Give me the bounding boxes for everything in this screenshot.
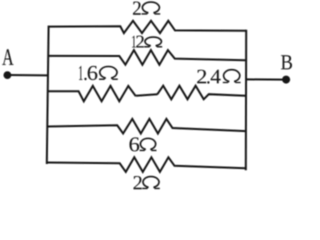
- wire: middle branch gap between R3 and R4: [136, 94, 158, 96]
- wire: terminal A lead: [7, 74, 48, 76]
- label R5 value 6ohm: [130, 137, 157, 151]
- node B terminal dot: [282, 76, 290, 84]
- label R1 value 2ohm: [133, 2, 160, 15]
- node B label: [281, 55, 292, 69]
- resistor R3 1.6ohm middle branch left: [48, 86, 136, 101]
- resistor R2 12ohm branch: [48, 50, 245, 65]
- label R4 value 2.4ohm: [197, 70, 240, 84]
- resistor R6 2ohm bottom branch: [47, 157, 246, 172]
- label R2 value 12ohm: [132, 36, 162, 48]
- wire: right vertical rail: [245, 30, 247, 171]
- resistor R4 2.4ohm middle branch right (up-first zigzag): [157, 86, 245, 100]
- wire: left vertical rail: [47, 26, 49, 164]
- resistor R5 6ohm branch: [48, 119, 246, 134]
- node A label: [2, 49, 13, 65]
- label R3 value 1.6ohm: [79, 66, 118, 80]
- resistor R1 2ohm top branch: [48, 21, 246, 33]
- wire: terminal B lead: [246, 78, 286, 80]
- node A terminal dot: [4, 71, 12, 79]
- label R6 value 2ohm: [134, 176, 160, 189]
